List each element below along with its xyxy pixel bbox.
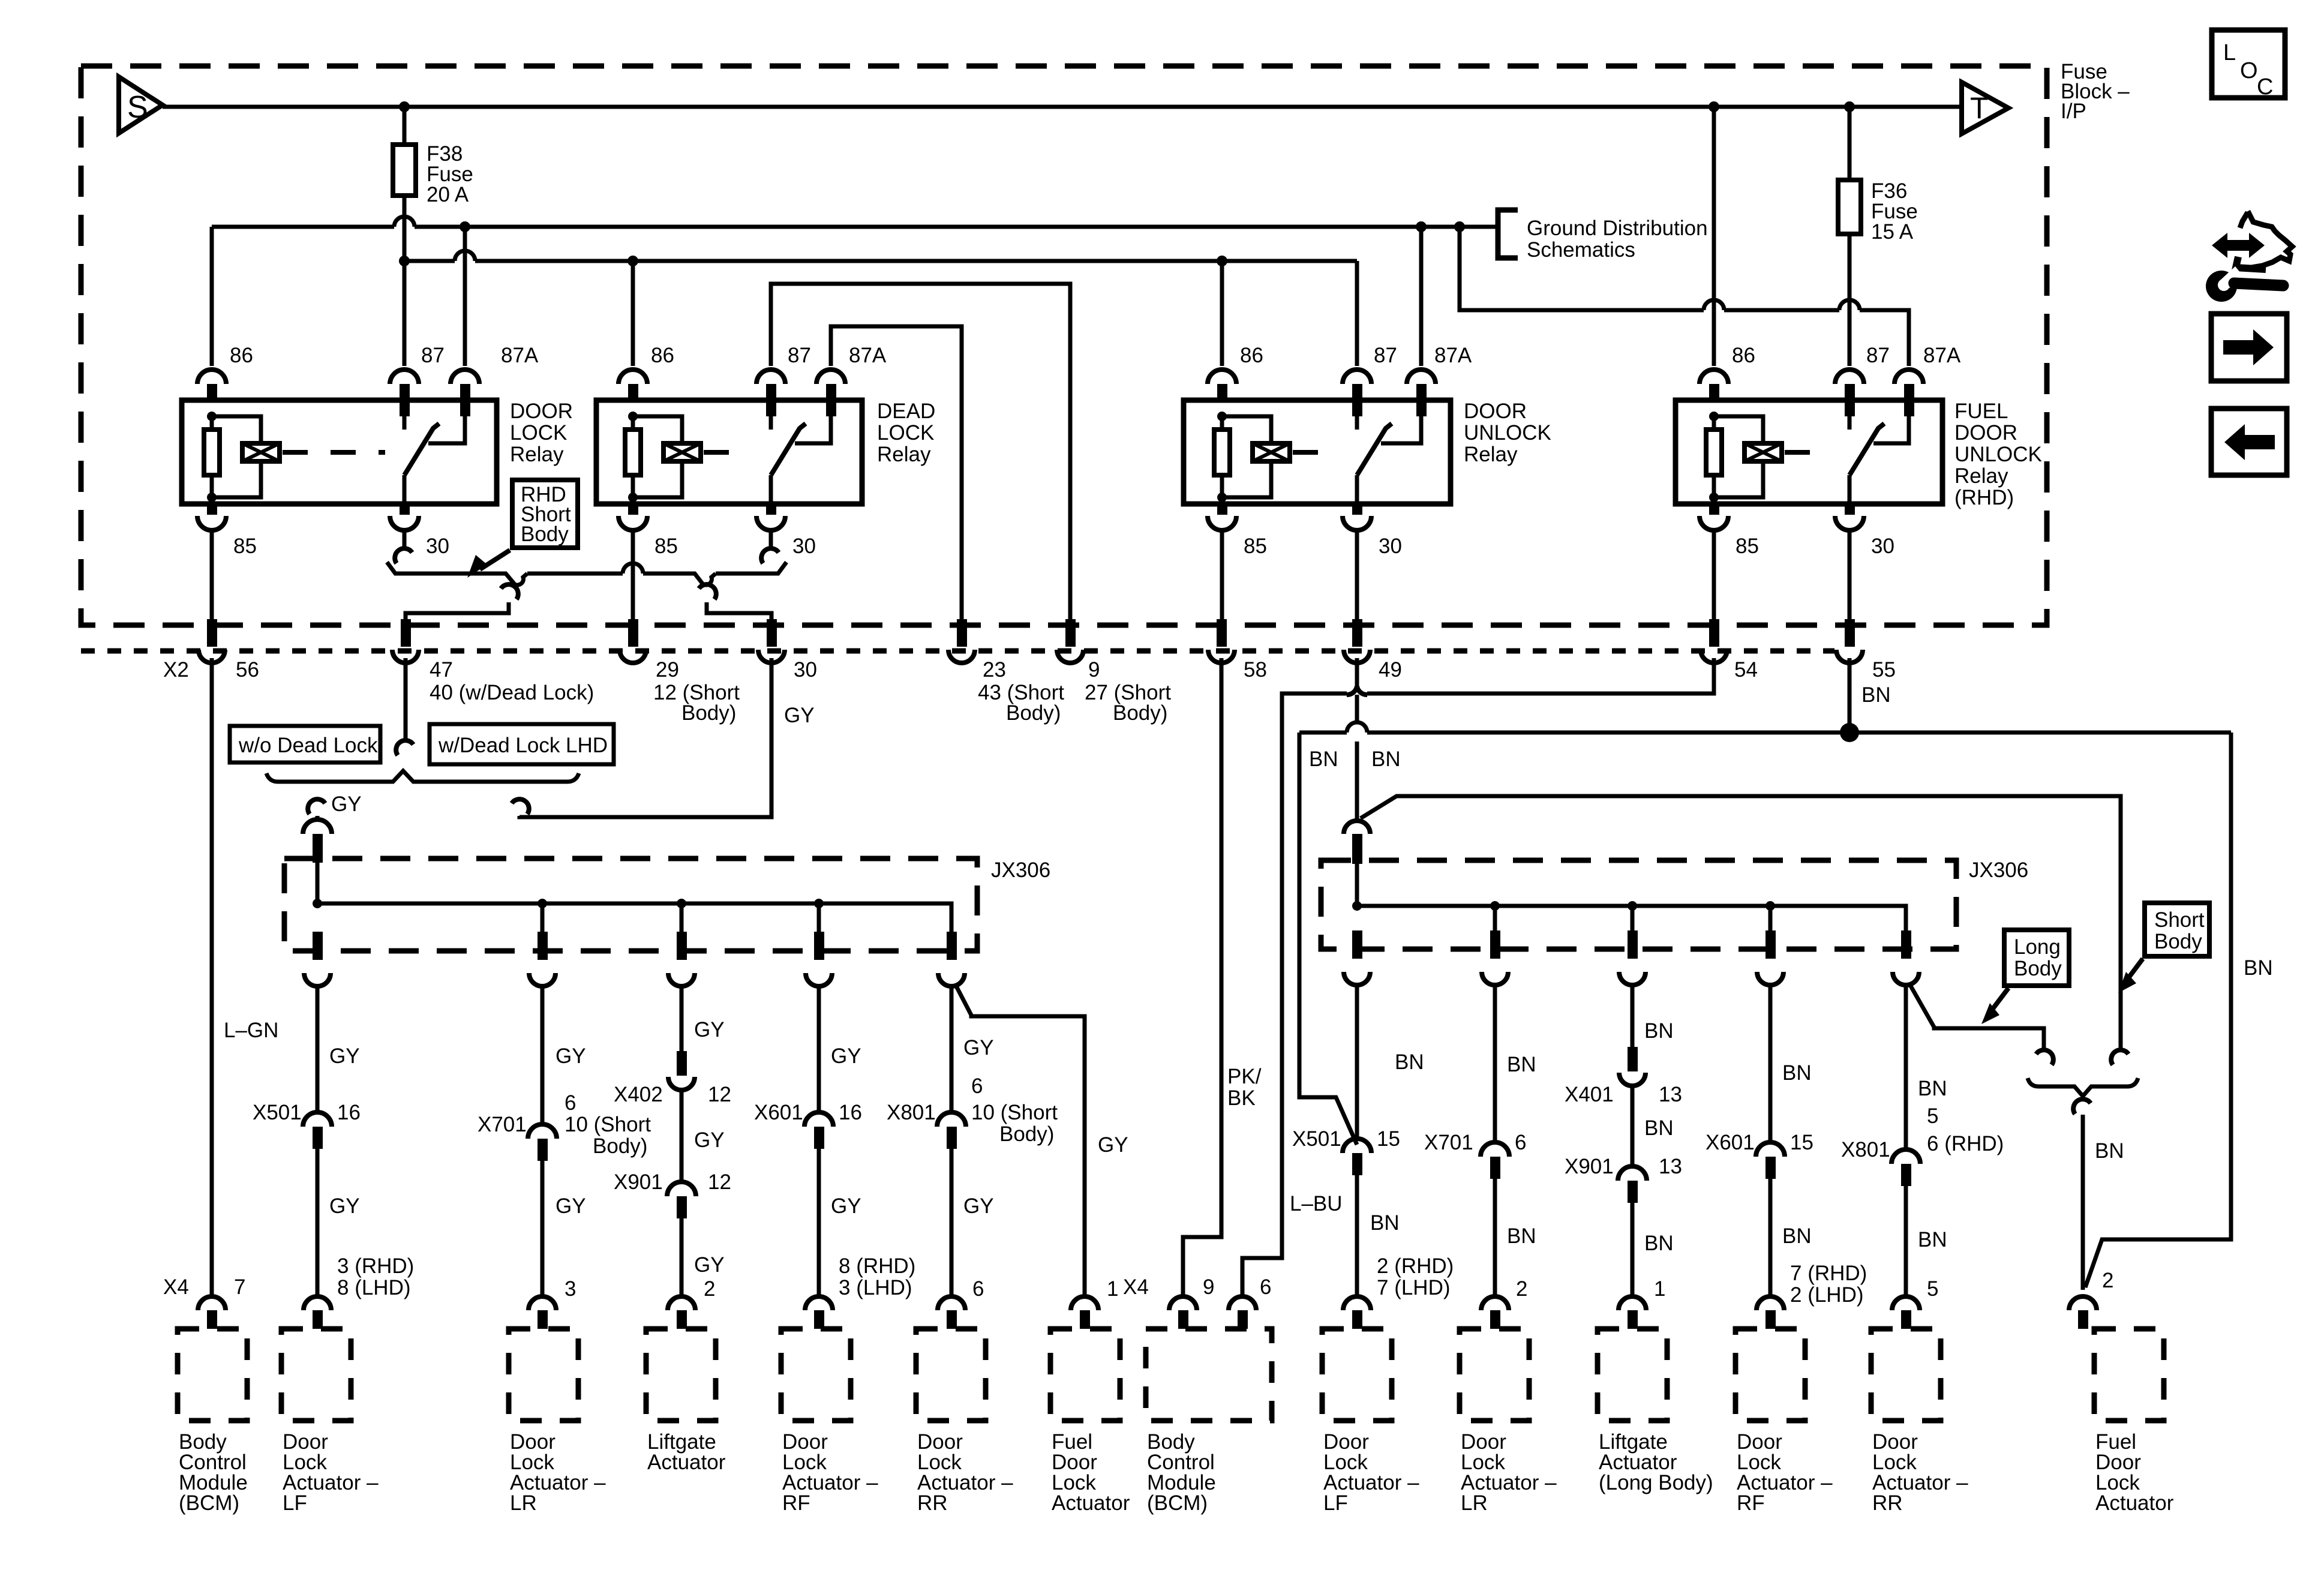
connector X901-13: [1618, 1166, 1647, 1181]
svg-text:3 (RHD): 3 (RHD): [337, 1254, 414, 1278]
relay K3 pin 86 connector: [1208, 370, 1236, 384]
hook option right: [699, 584, 716, 599]
svg-text:BN: BN: [1644, 1019, 1674, 1043]
svg-text:BN: BN: [1782, 1224, 1812, 1248]
connector X901-12: [667, 1182, 696, 1196]
wire 49 tap to pin 54: [1367, 658, 1714, 694]
wire relay2-86 drop: [631, 261, 635, 366]
connector X2 dotted interface: [81, 649, 1834, 654]
wire F36 output: [1848, 234, 1852, 366]
relay K3 box: [1184, 400, 1451, 504]
wire bump over relay4-87 wire: [1839, 300, 1860, 310]
wire JX306 right drop x2492: [1493, 906, 1497, 930]
connector X2 pin 9: [1065, 619, 1076, 647]
relay K4 switch fixed contact 87: [1845, 401, 1855, 416]
svg-text:13: 13: [1659, 1083, 1682, 1106]
svg-text:LOCK: LOCK: [510, 421, 567, 445]
svg-text:6: 6: [565, 1091, 576, 1115]
label box w/o Dead Lock: [230, 726, 380, 763]
svg-text:RF: RF: [1737, 1491, 1765, 1515]
node JX306 left bus x904: [538, 899, 547, 908]
svg-text:BN: BN: [1782, 1061, 1812, 1085]
connector Liftgate Actuator pin: [668, 1296, 695, 1310]
connector Door Lock Actuator LF pin: [304, 1296, 331, 1310]
svg-text:X402: X402: [614, 1083, 663, 1106]
svg-text:RR: RR: [1872, 1491, 1903, 1515]
module Door Lock Actuator LF right box: [1322, 1329, 1392, 1421]
connector JX306 left input: [303, 819, 332, 834]
node relay K4 coil bottom: [1709, 493, 1719, 502]
svg-text:X4: X4: [1123, 1275, 1149, 1299]
relay K3 coil loop: [1222, 416, 1271, 497]
connector X2 pin 56: [207, 619, 217, 647]
svg-text:UNLOCK: UNLOCK: [1464, 421, 1551, 445]
connector X2 pin 30: [767, 619, 777, 647]
module Door Lock Actuator RF box: [781, 1329, 851, 1421]
svg-text:w/Dead Lock LHD: w/Dead Lock LHD: [438, 734, 608, 757]
wire relay1-86 drop: [210, 227, 214, 366]
svg-text:LF: LF: [283, 1491, 307, 1515]
node fuse F38 tap: [399, 101, 410, 112]
svg-text:L: L: [2223, 40, 2236, 65]
wire X2-49 drop: [1355, 658, 1359, 686]
node JX306 right bus x2951: [1765, 901, 1775, 911]
svg-text:GY: GY: [329, 1194, 360, 1218]
svg-text:87A: 87A: [501, 344, 539, 367]
svg-text:JX306: JX306: [1969, 858, 2028, 882]
relay K3 switch common: [1355, 475, 1359, 504]
svg-text:85: 85: [1736, 535, 1759, 558]
connector Door Lock Actuator LR right pin: [1481, 1296, 1509, 1310]
relay K3 pin 85 lead: [1220, 497, 1224, 504]
wire BN rail: [1299, 731, 2231, 735]
svg-text:BN: BN: [1507, 1053, 1536, 1076]
relay K2 pin 85 lead: [631, 497, 635, 504]
svg-text:Body): Body): [1113, 701, 1167, 725]
wire GY to X501: [316, 986, 320, 1112]
module Liftgate Actuator box: [646, 1329, 716, 1421]
connector JX306 left output LF: [313, 932, 323, 960]
svg-text:15: 15: [1790, 1131, 1813, 1154]
wire relay1-85 drop: [210, 530, 214, 647]
relay K1 pin 86 connector: [197, 370, 226, 384]
wire BN rail left leg: [1299, 733, 1357, 1145]
relay K4 pin 85 lead: [1712, 497, 1716, 504]
wire relay4-86 drop: [1712, 107, 1716, 366]
svg-text:5: 5: [1927, 1104, 1938, 1128]
relay K3 pin 87 connector: [1343, 370, 1371, 384]
node relay1-87A tap: [460, 221, 470, 232]
wire BN to X601 right: [1768, 985, 1773, 1142]
relay K2 pin 30 connector: [766, 504, 776, 515]
svg-text:GY: GY: [694, 1253, 725, 1277]
svg-text:Body): Body): [1006, 701, 1061, 725]
svg-text:GY: GY: [331, 792, 362, 816]
connector JX306 right output RR: [1901, 930, 1911, 959]
module Liftgate Actuator Long Body box: [1598, 1329, 1667, 1421]
svg-text:X901: X901: [614, 1170, 663, 1194]
svg-text:30: 30: [794, 658, 817, 682]
relay K4 box: [1676, 400, 1942, 504]
svg-text:Relay: Relay: [1464, 443, 1518, 466]
module Body Control Module (BCM) left box: [178, 1329, 247, 1421]
wire JX306 left input: [316, 863, 320, 903]
svg-text:C: C: [2257, 74, 2273, 100]
relay K3 switch blade: [1357, 424, 1392, 475]
label box Long Body: [2004, 930, 2069, 986]
svg-text:30: 30: [792, 535, 816, 558]
node relay K1 coil top: [207, 412, 217, 421]
wire 49 tap to BCM pin 6: [1242, 694, 1347, 1295]
svg-text:2: 2: [2102, 1269, 2113, 1292]
svg-text:Actuator: Actuator: [647, 1451, 726, 1474]
svg-text:Relay: Relay: [1954, 464, 2008, 488]
bracket Ground Distribution Schematics: [1498, 210, 1518, 258]
svg-text:20 A: 20 A: [427, 183, 469, 206]
svg-text:UNLOCK: UNLOCK: [1954, 443, 2042, 466]
wire relay1-87A drop: [463, 227, 467, 366]
connector Door Lock Actuator RF pin: [805, 1296, 833, 1310]
wire 55 BN drop: [1848, 658, 1852, 731]
wire relay2-85 drop: [631, 530, 635, 647]
hook option left: [501, 584, 518, 599]
relay K2 box: [596, 400, 862, 504]
wire relay3-86 drop: [1220, 261, 1224, 366]
svg-text:LF: LF: [1323, 1491, 1348, 1515]
connector Door Lock Actuator RF right pin: [1756, 1296, 1784, 1310]
svg-text:X901: X901: [1565, 1155, 1614, 1178]
svg-text:15 A: 15 A: [1871, 220, 1914, 244]
wire bus A: [212, 225, 1498, 229]
svg-text:10 (Short: 10 (Short: [971, 1101, 1058, 1124]
relay K3 actuation dashed link: [1293, 450, 1338, 455]
relay K4 actuation dashed link: [1785, 450, 1830, 455]
wire relay3-87 drop: [1355, 261, 1359, 366]
svg-text:BN: BN: [1309, 748, 1338, 771]
svg-text:I/P: I/P: [2061, 100, 2086, 123]
relay K4 pin 30 connector: [1845, 504, 1855, 515]
fuse F36: [1838, 180, 1861, 234]
connector X801-6-10: [937, 1112, 966, 1127]
icon back arrow box: [2211, 409, 2287, 475]
svg-text:GY: GY: [556, 1194, 586, 1218]
node JX306 right bus x2721: [1628, 901, 1637, 911]
relay K4 switch common: [1848, 475, 1852, 504]
relay K1 coil resistor: [210, 416, 214, 430]
wire 49 down to JX306 right: [1355, 695, 1359, 819]
module Door Lock Actuator LF box: [281, 1329, 351, 1421]
wire top power bus: [163, 105, 1962, 109]
hook relay1-30: [395, 548, 412, 563]
wire JX306 right input: [1355, 864, 1359, 906]
connector Door Lock Actuator LR pin: [529, 1296, 556, 1310]
svg-text:Schematics: Schematics: [1527, 238, 1635, 262]
wire long body branch: [1909, 984, 2044, 1051]
svg-text:JX306: JX306: [991, 858, 1050, 882]
svg-text:BN: BN: [1371, 748, 1401, 771]
connector T arrow: [1962, 82, 2008, 134]
relay K1 solenoid element: [242, 443, 280, 461]
wire JX306 right bus: [1357, 906, 1906, 930]
connector X601-16: [804, 1112, 833, 1127]
svg-text:56: 56: [236, 658, 259, 682]
svg-text:7: 7: [234, 1275, 245, 1299]
svg-text:Body: Body: [2154, 930, 2202, 953]
svg-text:Actuator: Actuator: [1052, 1491, 1130, 1515]
svg-text:RF: RF: [782, 1491, 810, 1515]
wire GY to X601: [817, 986, 821, 1112]
svg-text:3 (LHD): 3 (LHD): [839, 1276, 912, 1299]
module Door Lock Actuator LR box: [509, 1329, 578, 1421]
svg-text:RR: RR: [917, 1491, 948, 1515]
node BN rail 55 junction: [1840, 723, 1859, 742]
relay K2 switch blade: [771, 424, 806, 475]
svg-text:X701: X701: [478, 1113, 527, 1136]
svg-text:O: O: [2240, 58, 2258, 83]
svg-text:BN: BN: [1507, 1224, 1536, 1248]
wire relay1-30 lead: [403, 530, 407, 550]
relay K4 pin 85 connector: [1709, 504, 1719, 515]
connector JX306 left output LR: [538, 932, 548, 960]
svg-text:DEAD: DEAD: [877, 400, 935, 423]
svg-text:DOOR: DOOR: [510, 400, 573, 423]
wire fuel actuator GY branch: [955, 984, 1085, 1295]
wire BN to X401: [1631, 985, 1635, 1047]
svg-text:6: 6: [1515, 1131, 1526, 1154]
svg-text:PK/: PK/: [1227, 1065, 1262, 1088]
hook w/dead lock branch: [512, 799, 529, 814]
connector X401-13: [1628, 1047, 1638, 1071]
wire BN to X701 right: [1493, 985, 1497, 1142]
wire X501 to LF2 actuator: [1355, 1175, 1359, 1295]
wire relay3-85 drop: [1220, 530, 1224, 647]
wire F36 feed: [1848, 107, 1852, 180]
node JX306 left bus x1365: [814, 899, 824, 908]
wire bus A bump over F38 wire: [394, 217, 415, 227]
node JX306 right bus x2262: [1352, 901, 1362, 911]
node relay3-87A tap: [1416, 221, 1427, 232]
svg-text:S: S: [127, 90, 148, 125]
relay K1 switch blade: [404, 424, 439, 475]
svg-text:BN: BN: [1861, 683, 1891, 707]
module Door Lock Actuator RR right box: [1871, 1329, 1941, 1421]
wire relay1-87 drop: [403, 261, 407, 366]
svg-text:GY: GY: [831, 1044, 861, 1068]
svg-text:Body): Body): [681, 701, 736, 725]
wire X501 to LF actuator: [316, 1149, 320, 1295]
connector X701-6 right: [1481, 1142, 1509, 1157]
svg-text:GY: GY: [694, 1018, 725, 1041]
svg-text:87A: 87A: [1923, 344, 1961, 367]
relay K3 pin 30 connector: [1352, 504, 1362, 515]
svg-text:LOCK: LOCK: [877, 421, 934, 445]
node fuse F36 tap: [1844, 101, 1855, 112]
svg-text:2: 2: [1516, 1277, 1527, 1301]
hook long body end: [2036, 1050, 2053, 1065]
svg-text:X701: X701: [1424, 1131, 1473, 1154]
connector Fuel Door Lock Actuator right pin: [2069, 1296, 2097, 1310]
svg-text:85: 85: [654, 535, 678, 558]
svg-text:GY: GY: [329, 1044, 360, 1068]
svg-text:DOOR: DOOR: [1464, 400, 1527, 423]
connector BCM right pin 6: [1229, 1296, 1256, 1310]
wire option left to pin 47: [406, 602, 509, 647]
svg-text:X2: X2: [163, 658, 189, 682]
hook pin47: [396, 740, 413, 755]
wire GY to X801: [950, 986, 954, 1112]
icon LOC box: [2212, 30, 2285, 98]
relay K2 pin 86 connector: [618, 370, 647, 384]
wire bump over relay4-86 wire: [1704, 300, 1724, 310]
node relay K2 coil top: [628, 412, 638, 421]
connector JX306 right output LF: [1352, 930, 1362, 959]
node relay2-86 tap: [627, 256, 638, 266]
wire w/dead lock LHD branch: [520, 658, 771, 817]
svg-text:23: 23: [983, 658, 1006, 682]
relay K2 pin 87 connector: [756, 370, 785, 384]
relay K4 pin 87 connector: [1835, 370, 1864, 384]
wire BN rail bump over 49 wire: [1347, 722, 1367, 733]
wire option right to pin 30: [707, 602, 771, 647]
connector JX306 right output RF: [1765, 930, 1776, 959]
svg-text:16: 16: [839, 1101, 862, 1124]
module Fuel Door Lock Actuator right box: [2094, 1329, 2164, 1421]
relay K2 pin 87A connector: [816, 370, 845, 384]
wire X401 to X901 right: [1631, 1086, 1635, 1166]
arrow Long Body: [1992, 988, 2008, 1010]
svg-text:86: 86: [651, 344, 674, 367]
svg-text:L–BU: L–BU: [1290, 1192, 1343, 1215]
svg-text:86: 86: [230, 344, 253, 367]
svg-text:29: 29: [656, 658, 679, 682]
svg-text:12: 12: [708, 1170, 731, 1194]
connector S arrow: [119, 77, 163, 133]
svg-text:Short: Short: [2154, 908, 2205, 932]
relay K3 coil resistor: [1220, 416, 1224, 430]
wire F38 output: [403, 196, 407, 261]
connector X501-16: [303, 1112, 332, 1127]
svg-text:Relay: Relay: [877, 443, 931, 466]
svg-text:X501: X501: [253, 1101, 302, 1124]
relay K3 pin 87A connector: [1407, 370, 1436, 384]
svg-text:BN: BN: [1644, 1116, 1674, 1140]
hook short body end: [2111, 1050, 2128, 1065]
wire JX306 left drop x1136: [680, 903, 684, 932]
hook 49 tap: [1347, 686, 1367, 695]
wire JX306 left drop x904: [541, 903, 545, 932]
module Door Lock Actuator LR right box: [1460, 1329, 1529, 1421]
connector Door Lock Actuator LF right pin: [1343, 1296, 1371, 1310]
relay K2 actuation dashed link: [704, 450, 752, 455]
relay K4 switch blade: [1849, 424, 1884, 475]
svg-text:X601: X601: [754, 1101, 803, 1124]
node relay K3 coil bottom: [1217, 493, 1227, 502]
wire relay4-85 drop: [1712, 530, 1716, 647]
relay K2 switch common: [769, 475, 773, 504]
wire w/o dead lock branch: [316, 816, 320, 821]
svg-text:87: 87: [788, 344, 811, 367]
connector X2 pin 49: [1352, 619, 1362, 647]
relay K4 coil resistor: [1712, 416, 1716, 430]
svg-text:16: 16: [337, 1101, 361, 1124]
wire short body branch: [1361, 796, 2121, 1051]
junction block JX306 right: [1321, 860, 1956, 949]
svg-text:47: 47: [430, 658, 453, 682]
wire X901 to liftgate actuator: [680, 1218, 684, 1295]
svg-text:8 (LHD): 8 (LHD): [337, 1276, 411, 1299]
node relay K4 coil top: [1709, 412, 1719, 421]
node JX306 left bus x529: [313, 899, 322, 908]
relay K3 solenoid element: [1253, 443, 1290, 461]
wire BN to X801 right: [1904, 985, 1908, 1149]
svg-text:T: T: [1970, 91, 1989, 125]
svg-text:Relay: Relay: [510, 443, 564, 466]
svg-text:DOOR: DOOR: [1954, 421, 2017, 445]
svg-text:LR: LR: [510, 1491, 537, 1515]
svg-text:(BCM): (BCM): [1147, 1491, 1208, 1515]
module Fuel Door Lock Actuator left box: [1050, 1329, 1120, 1421]
icon vehicle outline: [2248, 211, 2292, 268]
svg-text:GY: GY: [831, 1194, 861, 1218]
connector X2 pin 47: [401, 619, 411, 647]
svg-text:w/o Dead Lock: w/o Dead Lock: [238, 734, 378, 757]
relay K1 pin 85 lead: [210, 497, 214, 504]
svg-text:Body): Body): [593, 1134, 647, 1158]
svg-text:87: 87: [1374, 344, 1397, 367]
svg-text:Body): Body): [999, 1122, 1054, 1146]
wire X901 to liftgate2 actuator: [1631, 1203, 1635, 1295]
svg-text:87A: 87A: [1434, 344, 1472, 367]
connector X801-5-6: [1891, 1149, 1920, 1164]
relay K2 solenoid element: [663, 443, 701, 461]
svg-text:L–GN: L–GN: [224, 1019, 278, 1042]
svg-text:BN: BN: [1395, 1050, 1424, 1074]
relay K1 pin 30 connector: [400, 504, 410, 515]
wire relay3-30 drop: [1355, 530, 1359, 647]
brace body options: [2028, 1078, 2138, 1096]
relay K1 pin 87 connector: [390, 370, 419, 384]
svg-text:30: 30: [426, 535, 449, 558]
svg-text:15: 15: [1377, 1127, 1400, 1151]
connector Body Control Module (BCM) left pin: [198, 1296, 226, 1310]
module Body Control Module (BCM) right box: [1146, 1329, 1272, 1421]
svg-text:10 (Short: 10 (Short: [565, 1113, 651, 1136]
icon forward arrow box: [2211, 314, 2287, 381]
hook w/o dead lock branch: [308, 799, 325, 814]
connector JX306 left output RF: [814, 932, 824, 960]
wire X701 to LR actuator: [541, 1161, 545, 1295]
wire relay3-87A drop: [1419, 227, 1424, 366]
node F38 to bus B: [399, 256, 410, 266]
relay K4 pin 87A connector: [1894, 370, 1923, 384]
svg-text:GY: GY: [963, 1036, 994, 1059]
fuse block dashed boundary: [81, 66, 2047, 625]
label box w/Dead Lock LHD: [430, 724, 614, 764]
svg-text:GY: GY: [784, 704, 815, 727]
arrow RHD Short Body: [480, 550, 510, 569]
svg-text:13: 13: [1659, 1155, 1682, 1178]
node JX306 right bus x2492: [1490, 901, 1500, 911]
svg-text:BK: BK: [1227, 1086, 1256, 1110]
wire X601 to RF2 actuator: [1768, 1179, 1773, 1295]
node relay4-86 tap: [1709, 101, 1719, 112]
connector BCM right pin 9: [1169, 1296, 1197, 1310]
svg-text:BN: BN: [2095, 1139, 2124, 1163]
hook body merge: [2073, 1099, 2091, 1114]
connector X501-15: [1343, 1139, 1371, 1153]
svg-text:87A: 87A: [849, 344, 887, 367]
relay K1 box: [182, 400, 497, 504]
